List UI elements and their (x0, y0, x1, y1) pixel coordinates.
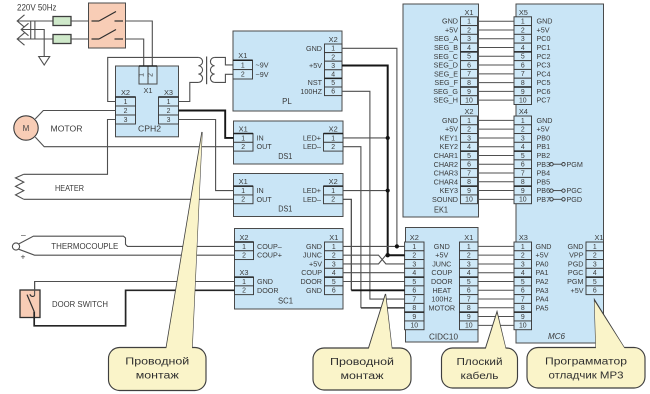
wire: CPH2 X2.1 loop to transformer primary top (108, 57, 199, 101)
svg-text:PGD: PGD (567, 195, 583, 204)
svg-text:8: 8 (467, 305, 471, 312)
connector X3 of SC1 (235, 268, 254, 295)
svg-text:PB4: PB4 (537, 169, 551, 178)
wire: phase to fuse F1 (17, 20, 53, 22)
svg-text:+5V: +5V (309, 259, 322, 268)
svg-text:X1: X1 (464, 233, 473, 242)
svg-text:8: 8 (521, 179, 525, 186)
svg-text:5: 5 (467, 279, 471, 286)
svg-text:PC3: PC3 (537, 61, 551, 70)
module EK1 (keyboard/display unit) (403, 4, 479, 217)
svg-text:10: 10 (519, 323, 527, 330)
svg-text:GND: GND (536, 242, 552, 251)
svg-text:PB1: PB1 (537, 142, 551, 151)
svg-text:PC1: PC1 (537, 43, 551, 52)
connector X1 of DS1 lower (234, 177, 254, 204)
svg-text:5: 5 (593, 279, 597, 286)
svg-text:3: 3 (521, 36, 525, 43)
svg-text:1: 1 (124, 99, 128, 106)
svg-text:10: 10 (465, 197, 473, 204)
svg-text:HEAT: HEAT (432, 286, 451, 295)
net labels of EK1 X1 (433, 17, 458, 105)
callout: programmer/debugger MP3 (595, 300, 626, 349)
svg-text:2: 2 (467, 127, 471, 134)
flat cable EK1 X2 to MC6 X4 (478, 120, 515, 199)
svg-text:2: 2 (241, 144, 245, 151)
wire: SC1 X1.4 COUP to CIDC10 X2.4 (343, 272, 405, 274)
svg-text:100Hz: 100Hz (431, 295, 452, 304)
connector X1 of EK1 (461, 8, 478, 105)
svg-text:9: 9 (521, 188, 525, 195)
svg-text:7: 7 (521, 296, 525, 303)
svg-text:2: 2 (124, 108, 128, 115)
motor M1 (14, 116, 38, 140)
wire: primary bottom to CPH2 X3.1 (179, 82, 199, 101)
svg-text:1: 1 (167, 99, 171, 106)
wire: earth pin to ground (21, 30, 44, 57)
svg-text:GND: GND (306, 44, 322, 53)
svg-text:+5V: +5V (536, 251, 549, 260)
svg-text:4: 4 (467, 270, 471, 277)
svg-text:SEG_H: SEG_H (434, 96, 458, 105)
svg-text:7: 7 (521, 71, 525, 78)
svg-text:2: 2 (412, 253, 416, 260)
wire: door switch to SC1 X3.2 DOOR (34, 290, 234, 326)
svg-text:2: 2 (521, 253, 525, 260)
svg-text:KEY3: KEY3 (440, 186, 458, 195)
svg-text:2: 2 (148, 73, 155, 77)
pin labels COUP- COUP+ (257, 242, 282, 260)
svg-text:LED–: LED– (303, 142, 321, 151)
svg-text:PA3: PA3 (536, 286, 549, 295)
svg-text:3: 3 (467, 135, 471, 142)
svg-text:1: 1 (241, 135, 245, 142)
pin labels IN OUT (257, 186, 273, 204)
connector X3 of CPH2 (159, 88, 179, 124)
connector X5 of MC6 (514, 8, 532, 105)
wire: secondary bottom to PL X1.2 (215, 74, 233, 82)
svg-text:+5V: +5V (571, 286, 584, 295)
svg-text:4: 4 (521, 144, 525, 151)
callout: flat cable (485, 312, 506, 350)
svg-text:PGM: PGM (567, 160, 583, 169)
svg-text:X2: X2 (121, 88, 130, 97)
svg-text:SEG_F: SEG_F (434, 78, 458, 87)
transformer T1 primary winding (198, 57, 202, 82)
wire: door switch to SC1 X3.1 GND (35, 282, 235, 291)
connector X1 of MC6 (programmer) (586, 233, 604, 295)
wire: SC1 X1.5 DOOR to CIDC10 X2.5 (343, 281, 405, 283)
svg-text:1: 1 (331, 135, 335, 142)
wire: SC1 X1.2 JUNC to CIDC10 X2.3 (crossover) (343, 255, 405, 264)
svg-text:3: 3 (332, 261, 336, 268)
connector X2 of SC1 (235, 233, 254, 260)
svg-text:+5V: +5V (309, 61, 322, 70)
svg-text:LED–: LED– (303, 195, 321, 204)
svg-text:9: 9 (467, 188, 471, 195)
svg-text:VPP: VPP (569, 251, 584, 260)
svg-text:2: 2 (467, 253, 471, 260)
junction: GND node at CIDC10 (395, 244, 399, 248)
svg-text:X2: X2 (329, 35, 338, 44)
svg-text:9: 9 (412, 314, 416, 321)
svg-text:MOTOR: MOTOR (51, 123, 83, 133)
door switch S2 (20, 282, 40, 318)
junction: +5V / DS1b LED+ (386, 188, 390, 192)
callout: wired mounting (left) (166, 132, 202, 349)
ground (39, 57, 50, 66)
fuse F2 (53, 35, 71, 44)
svg-text:LED+: LED+ (303, 133, 321, 142)
svg-text:PA0: PA0 (536, 259, 549, 268)
svg-text:X1: X1 (239, 177, 248, 186)
svg-text:IN: IN (257, 186, 264, 195)
svg-text:COUP+: COUP+ (257, 251, 282, 260)
svg-text:3: 3 (124, 117, 128, 124)
wire: GND net PL X2.1 to CIDC10 X2.1 (342, 48, 397, 246)
svg-text:JUNC: JUNC (432, 259, 451, 268)
wire: +5V net PL X2.3 down (bold) (342, 66, 405, 256)
svg-text:X1: X1 (594, 233, 603, 242)
svg-text:5: 5 (521, 153, 525, 160)
svg-text:LED+: LED+ (303, 186, 321, 195)
junction: +5V / DS1a LED+ (386, 136, 390, 140)
svg-text:10: 10 (465, 98, 473, 105)
svg-text:PB6: PB6 (537, 186, 551, 195)
net labels of CIDC10 (428, 242, 455, 312)
svg-text:10: 10 (410, 323, 418, 330)
junction: +5V node at CIDC10 (386, 253, 390, 257)
svg-text:SEG_D: SEG_D (434, 61, 458, 70)
svg-text:CPH2: CPH2 (138, 125, 161, 134)
wire: secondary top to PL X1.1 (215, 57, 233, 65)
pin labels LED+ LED- (303, 186, 321, 204)
svg-text:PA1: PA1 (536, 268, 549, 277)
svg-text:4: 4 (332, 270, 336, 277)
svg-text:COUP–: COUP– (257, 242, 282, 251)
net labels of MC6 X3 (536, 242, 552, 312)
svg-text:DS1: DS1 (278, 152, 292, 161)
svg-text:GND: GND (257, 277, 273, 286)
svg-text:3: 3 (593, 261, 597, 268)
svg-text:4: 4 (331, 72, 335, 79)
svg-text:6: 6 (412, 288, 416, 295)
connector X1 of SC1 (325, 233, 344, 295)
mains plug arrows (17, 15, 28, 45)
wire: heater top to CPH2 X2.3 (24, 120, 116, 175)
svg-text:2: 2 (521, 127, 525, 134)
svg-text:X3: X3 (519, 233, 528, 242)
net labels of MC6 X5 (537, 17, 553, 105)
wire: DS1 lower LED+ to +5V (343, 190, 388, 192)
svg-text:SC1: SC1 (278, 297, 293, 306)
svg-text:1: 1 (412, 244, 416, 251)
fuse F1 (53, 17, 71, 26)
net labels of EK1 X2 (432, 116, 458, 204)
svg-text:+5V: +5V (435, 251, 448, 260)
svg-text:2: 2 (167, 108, 171, 115)
svg-text:PGC: PGC (568, 268, 584, 277)
svg-text:PA4: PA4 (536, 295, 549, 304)
svg-text:DOOR: DOOR (431, 277, 453, 286)
svg-text:2: 2 (242, 288, 246, 295)
svg-text:PGM: PGM (567, 277, 583, 286)
svg-text:100HZ: 100HZ (300, 87, 322, 96)
svg-text:4: 4 (467, 144, 471, 151)
connector X2 of PL (325, 35, 343, 96)
svg-text:DOOR SWITCH: DOOR SWITCH (52, 299, 108, 309)
module DS1 (lower, heater switch) (234, 174, 344, 217)
svg-text:Проводной: Проводной (125, 357, 189, 368)
svg-text:X3: X3 (164, 88, 173, 97)
svg-text:2: 2 (331, 54, 335, 61)
wire: fuse F1 to interlock switch (71, 20, 89, 22)
value labels ~9V (256, 60, 269, 78)
svg-text:X2: X2 (239, 233, 248, 242)
svg-text:10: 10 (519, 98, 527, 105)
svg-text:X1: X1 (329, 233, 338, 242)
svg-text:5: 5 (331, 80, 335, 87)
svg-text:4: 4 (593, 270, 597, 277)
svg-text:X1: X1 (143, 86, 152, 95)
svg-text:8: 8 (521, 80, 525, 87)
svg-text:CHAR1: CHAR1 (434, 151, 458, 160)
svg-text:3: 3 (331, 63, 335, 70)
net labels of PL X2 (300, 44, 322, 96)
svg-text:GND: GND (442, 17, 458, 26)
svg-text:5: 5 (521, 54, 525, 61)
svg-text:PB5: PB5 (537, 177, 551, 186)
svg-text:Проводной: Проводной (330, 357, 394, 368)
wire: motor bottom to DS1 upper X1.2 OUT (35, 137, 233, 147)
svg-text:4: 4 (412, 270, 416, 277)
svg-text:5: 5 (332, 279, 336, 286)
svg-text:отладчик МР3: отладчик МР3 (549, 371, 625, 382)
svg-text:6: 6 (521, 162, 525, 169)
svg-text:CHAR4: CHAR4 (434, 177, 458, 186)
svg-text:4: 4 (467, 45, 471, 52)
svg-text:1: 1 (521, 19, 525, 26)
svg-text:7: 7 (467, 296, 471, 303)
wire: SC1 X1.3 +5V to +5V dot (crossover) (343, 255, 388, 264)
svg-text:6: 6 (521, 288, 525, 295)
svg-text:DS1: DS1 (278, 205, 292, 214)
svg-text:PGC: PGC (567, 186, 583, 195)
svg-text:PB0: PB0 (537, 133, 551, 142)
module PL (display board) (233, 31, 342, 111)
connector X2 of CIDC10 (405, 233, 424, 330)
svg-text:220V 50Hz: 220V 50Hz (17, 3, 57, 13)
svg-text:OUT: OUT (257, 195, 273, 204)
thermocouple B1 (12, 230, 26, 262)
svg-text:GND: GND (306, 286, 322, 295)
svg-text:X4: X4 (519, 107, 528, 116)
svg-text:PC7: PC7 (537, 96, 551, 105)
svg-text:MOTOR: MOTOR (428, 303, 455, 312)
svg-text:5: 5 (467, 54, 471, 61)
svg-text:кабель: кабель (461, 371, 499, 382)
svg-text:+5V: +5V (445, 25, 458, 34)
svg-text:X3: X3 (239, 268, 248, 277)
svg-text:X5: X5 (519, 8, 528, 17)
svg-text:COUP: COUP (301, 268, 322, 277)
connector X2 of DS1 lower (324, 177, 344, 204)
svg-text:~9V: ~9V (256, 60, 269, 69)
svg-text:PB7: PB7 (537, 195, 551, 204)
pin labels IN OUT (257, 133, 273, 151)
wire: DS1 upper LED+ to +5V (343, 137, 388, 139)
svg-text:7: 7 (467, 71, 471, 78)
svg-text:3: 3 (521, 261, 525, 268)
svg-text:X1: X1 (464, 8, 473, 17)
svg-text:JUNC: JUNC (303, 251, 322, 260)
pin labels LED+ LED- (303, 133, 321, 151)
svg-text:2: 2 (241, 197, 245, 204)
net labels of SC1 X1 (300, 242, 322, 295)
svg-text:8: 8 (467, 80, 471, 87)
svg-text:PB3: PB3 (537, 160, 551, 169)
svg-text:8: 8 (412, 305, 416, 312)
net labels of MC6 X1 (567, 242, 584, 295)
svg-text:X1: X1 (238, 51, 247, 60)
svg-text:PGD: PGD (568, 259, 584, 268)
interlock switch S1 (door interlock, dual) (89, 3, 126, 48)
wire: thermocouple plus to SC1 X2.2 (19, 249, 235, 255)
jumper PB6-PGC (550, 189, 565, 192)
svg-text:THERMOCOUPLE: THERMOCOUPLE (51, 241, 118, 251)
wire: motor top to CPH2 X2.2 (35, 111, 115, 119)
svg-text:GND: GND (537, 116, 553, 125)
callout: wired mounting (middle) (368, 294, 392, 350)
svg-text:SEG_B: SEG_B (434, 43, 458, 52)
svg-text:GND: GND (434, 242, 450, 251)
svg-text:8: 8 (521, 305, 525, 312)
svg-text:GND: GND (537, 17, 553, 26)
svg-text:1: 1 (241, 188, 245, 195)
svg-text:X2: X2 (410, 233, 419, 242)
svg-text:X2: X2 (464, 107, 473, 116)
svg-text:2: 2 (331, 197, 335, 204)
wire: DS1 upper LED- to CIDC10 X2.8 MOTOR (343, 147, 361, 308)
module CPH2 (power board) (116, 66, 179, 137)
svg-text:4: 4 (521, 45, 525, 52)
svg-text:X1: X1 (239, 125, 248, 134)
svg-text:1: 1 (467, 118, 471, 125)
connector X3 of MC6 (514, 233, 532, 330)
svg-text:1: 1 (242, 279, 246, 286)
wire: CPH2 X3.3 to DS1 lower X1.1 IN (179, 120, 234, 191)
wire: heater bottom to DS1 lower X1.2 OUT (24, 198, 234, 200)
svg-text:3: 3 (167, 117, 171, 124)
svg-text:CHAR3: CHAR3 (434, 169, 458, 178)
svg-text:1: 1 (332, 244, 336, 251)
svg-text:7: 7 (467, 170, 471, 177)
svg-text:X2: X2 (329, 125, 338, 134)
wire: switch bottom to CPH2 X1.1 (126, 39, 144, 66)
wire: DS1 lower LED- to CIDC10 X2.6 HEAT (343, 199, 351, 290)
svg-text:OUT: OUT (257, 142, 273, 151)
svg-text:3: 3 (521, 135, 525, 142)
svg-text:PL: PL (282, 97, 292, 106)
module MC6 (microcontroller board) (516, 4, 604, 343)
module DS1 (upper, motor switch) (234, 121, 344, 164)
svg-text:KEY2: KEY2 (440, 142, 458, 151)
svg-text:7: 7 (521, 170, 525, 177)
svg-text:6: 6 (467, 288, 471, 295)
wire: SC1 X1.1 GND to CIDC10 X2.1 (343, 245, 405, 247)
svg-text:2: 2 (467, 27, 471, 34)
wire: CPH2 X3.2 to DS1 upper X1.1 IN (bold) (179, 111, 234, 138)
svg-text:9: 9 (521, 314, 525, 321)
svg-text:2: 2 (241, 72, 245, 79)
svg-text:2: 2 (332, 253, 336, 260)
connector X1 of DS1 upper (234, 125, 254, 152)
svg-text:1: 1 (593, 244, 597, 251)
svg-text:2: 2 (242, 253, 246, 260)
svg-text:2: 2 (593, 253, 597, 260)
wire: 100Hz net PL X2.6 to CIDC10 X2.7 (342, 91, 405, 299)
flat cable CIDC10 X1 to MC6 X3 (478, 246, 514, 325)
svg-text:1: 1 (241, 62, 245, 69)
svg-text:8: 8 (467, 179, 471, 186)
flat cable EK1 X1 to MC6 X5 (478, 21, 515, 100)
svg-text:4: 4 (521, 270, 525, 277)
svg-text:Программатор: Программатор (545, 357, 628, 368)
svg-text:SOUND: SOUND (432, 195, 458, 204)
svg-text:GND: GND (442, 116, 458, 125)
svg-text:GND: GND (568, 242, 584, 251)
svg-text:–: – (21, 230, 26, 240)
svg-text:PC4: PC4 (537, 69, 551, 78)
svg-text:CHAR2: CHAR2 (434, 160, 458, 169)
connector X1 of CPH2 (pins 1,2 rotated) (139, 66, 158, 95)
svg-text:M: M (23, 124, 30, 133)
svg-text:PC2: PC2 (537, 52, 551, 61)
svg-text:6: 6 (331, 89, 335, 96)
svg-text:PC5: PC5 (537, 78, 551, 87)
svg-text:GND: GND (306, 242, 322, 251)
svg-text:9: 9 (521, 89, 525, 96)
transformer core (206, 57, 208, 85)
svg-text:7: 7 (412, 296, 416, 303)
svg-text:1: 1 (467, 19, 471, 26)
svg-text:+5V: +5V (537, 25, 550, 34)
svg-text:PA2: PA2 (536, 277, 549, 286)
transformer T1 secondary winding (210, 57, 214, 82)
module SC1 (sensor board) (235, 229, 344, 310)
svg-text:KEY1: KEY1 (440, 133, 458, 142)
wire: fuse F2 to interlock switch (71, 38, 89, 40)
wire: neutral to fuse F2 (17, 38, 53, 40)
svg-text:HEATER: HEATER (55, 183, 84, 193)
svg-text:+5V: +5V (445, 125, 458, 134)
wire: thermocouple minus to SC1 X2.1 (19, 236, 235, 246)
svg-text:SEG_C: SEG_C (434, 52, 458, 61)
svg-text:DOOR: DOOR (257, 286, 279, 295)
svg-text:6: 6 (593, 288, 597, 295)
svg-text:6: 6 (521, 62, 525, 69)
svg-text:5: 5 (412, 279, 416, 286)
svg-text:3: 3 (412, 261, 416, 268)
svg-text:монтаж: монтаж (341, 371, 385, 382)
heater R1 (zigzag) (16, 174, 24, 199)
svg-text:SEG_E: SEG_E (434, 69, 458, 78)
connector X2 of EK1 (461, 107, 478, 204)
svg-text:PC6: PC6 (537, 87, 551, 96)
svg-text:1: 1 (242, 244, 246, 251)
svg-text:6: 6 (332, 288, 336, 295)
svg-text:+: + (21, 252, 26, 262)
